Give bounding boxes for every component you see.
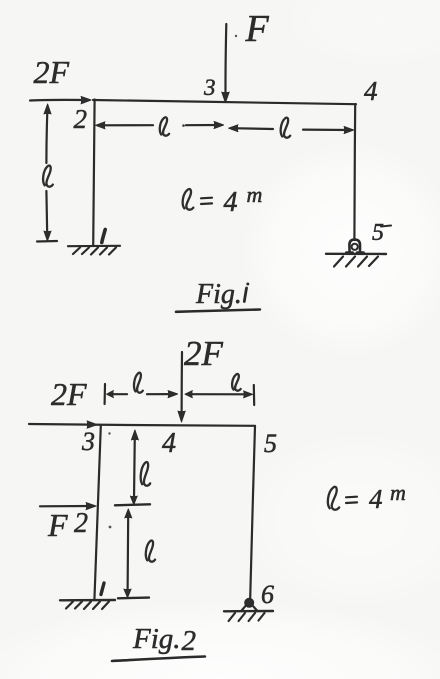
value label l [160,117,169,135]
column 2-1 (fig1 left) [93,100,94,247]
beam 3-4-5 with 2F head (fig2) [29,421,255,428]
svg-text:2: 2 [74,104,88,134]
svg-text:4: 4 [369,484,383,514]
value label l [134,373,143,393]
label 2F left (fig2) [51,376,87,412]
svg-text:3: 3 [81,427,95,456]
node label 3 (fig2) [81,427,95,456]
svg-text:4: 4 [162,428,176,459]
small dot near F (fig1) [235,35,237,37]
value label l [328,487,339,510]
bottom tick (fig2) [118,596,149,599]
svg-text:4: 4 [364,76,378,106]
node label 5 (fig2) [264,429,277,458]
dimension l right (fig1, F to node4) [229,118,354,138]
svg-text:5: 5 [264,429,277,458]
mid tick (fig2) [115,504,150,505]
caption Fig. 2 [132,623,196,657]
dimension l left (fig1, node2 to F) [96,117,224,135]
equation l = 4 m (fig1) [183,182,263,218]
small dot near node 3 (fig2) [108,432,110,434]
value label l [141,462,151,486]
node label 1 tick (fig1) [102,230,105,243]
node label 4 (fig1) [364,76,378,106]
value label l [183,189,194,210]
small dot near node 2 (fig2) [109,526,112,529]
svg-text:4: 4 [224,187,238,218]
dimension l top-right (fig2) [185,374,254,405]
node label 1 tick (fig2) [101,583,104,595]
column 4-5 (fig1 right) [353,104,356,240]
node label 2 (fig2) [74,508,88,539]
value label l [232,374,241,391]
ground hatching at node 5 (fig1) [326,254,386,267]
svg-text:5: 5 [372,220,384,246]
column 5-6 (fig2 right) [250,426,255,598]
node label 4 (fig2) [162,428,176,459]
vertical dimension l (fig1 left) [37,104,57,242]
svg-text:m: m [247,182,263,207]
svg-text:Fig.: Fig. [195,279,242,310]
roller support at node 5 (fig1) [347,240,364,253]
value label l [146,540,155,561]
svg-text:m: m [390,480,406,505]
svg-text:Fig.: Fig. [132,623,181,655]
caption Fig. 1 [195,279,249,310]
force 2F arrow (fig1) [30,97,91,104]
label F (fig1) [245,8,270,50]
ground hatching at node 1 (fig2) [60,600,115,609]
label 2F at node 2 (fig1) [34,54,70,90]
vertical dimension l upper (fig2) [130,430,150,505]
beam 2-3-4 (fig1) [93,100,356,104]
svg-text:2F: 2F [34,54,70,90]
caption underline (fig2) [112,657,205,662]
svg-text:2F: 2F [51,376,87,412]
svg-text:2: 2 [182,625,197,657]
label F (fig2) [47,507,68,543]
dimension l top-left (fig2) [105,373,178,404]
svg-text:2: 2 [74,508,88,539]
ground hatching at node 1 (fig1) [68,246,120,255]
svg-text:F: F [245,8,270,50]
ground hatching at node 6 (fig2) [224,611,273,621]
node label 6 (fig2) [261,580,274,609]
equation l = 4 m (fig2) [328,480,406,514]
svg-text:3: 3 [203,75,216,100]
node label 2 (fig1) [74,104,88,134]
node label 5 (fig1) [372,220,391,246]
force F arrow (fig1) [222,24,229,103]
force 2F arrow (fig2) [178,352,185,422]
svg-text:F: F [47,507,68,543]
vertical dimension l lower (fig2) [124,509,155,598]
svg-text:6: 6 [261,580,274,609]
node label 3 (fig1) [203,75,216,100]
label 2F top (fig2) [184,334,224,373]
pin support at node 6 (fig2) [241,599,257,611]
value label l [43,165,53,186]
svg-text:2F: 2F [184,334,224,373]
caption underline (fig1) [176,310,260,312]
force F arrow (fig2) [40,503,96,510]
column 3-1 (fig2 left) [94,426,100,600]
value label l [281,118,291,138]
